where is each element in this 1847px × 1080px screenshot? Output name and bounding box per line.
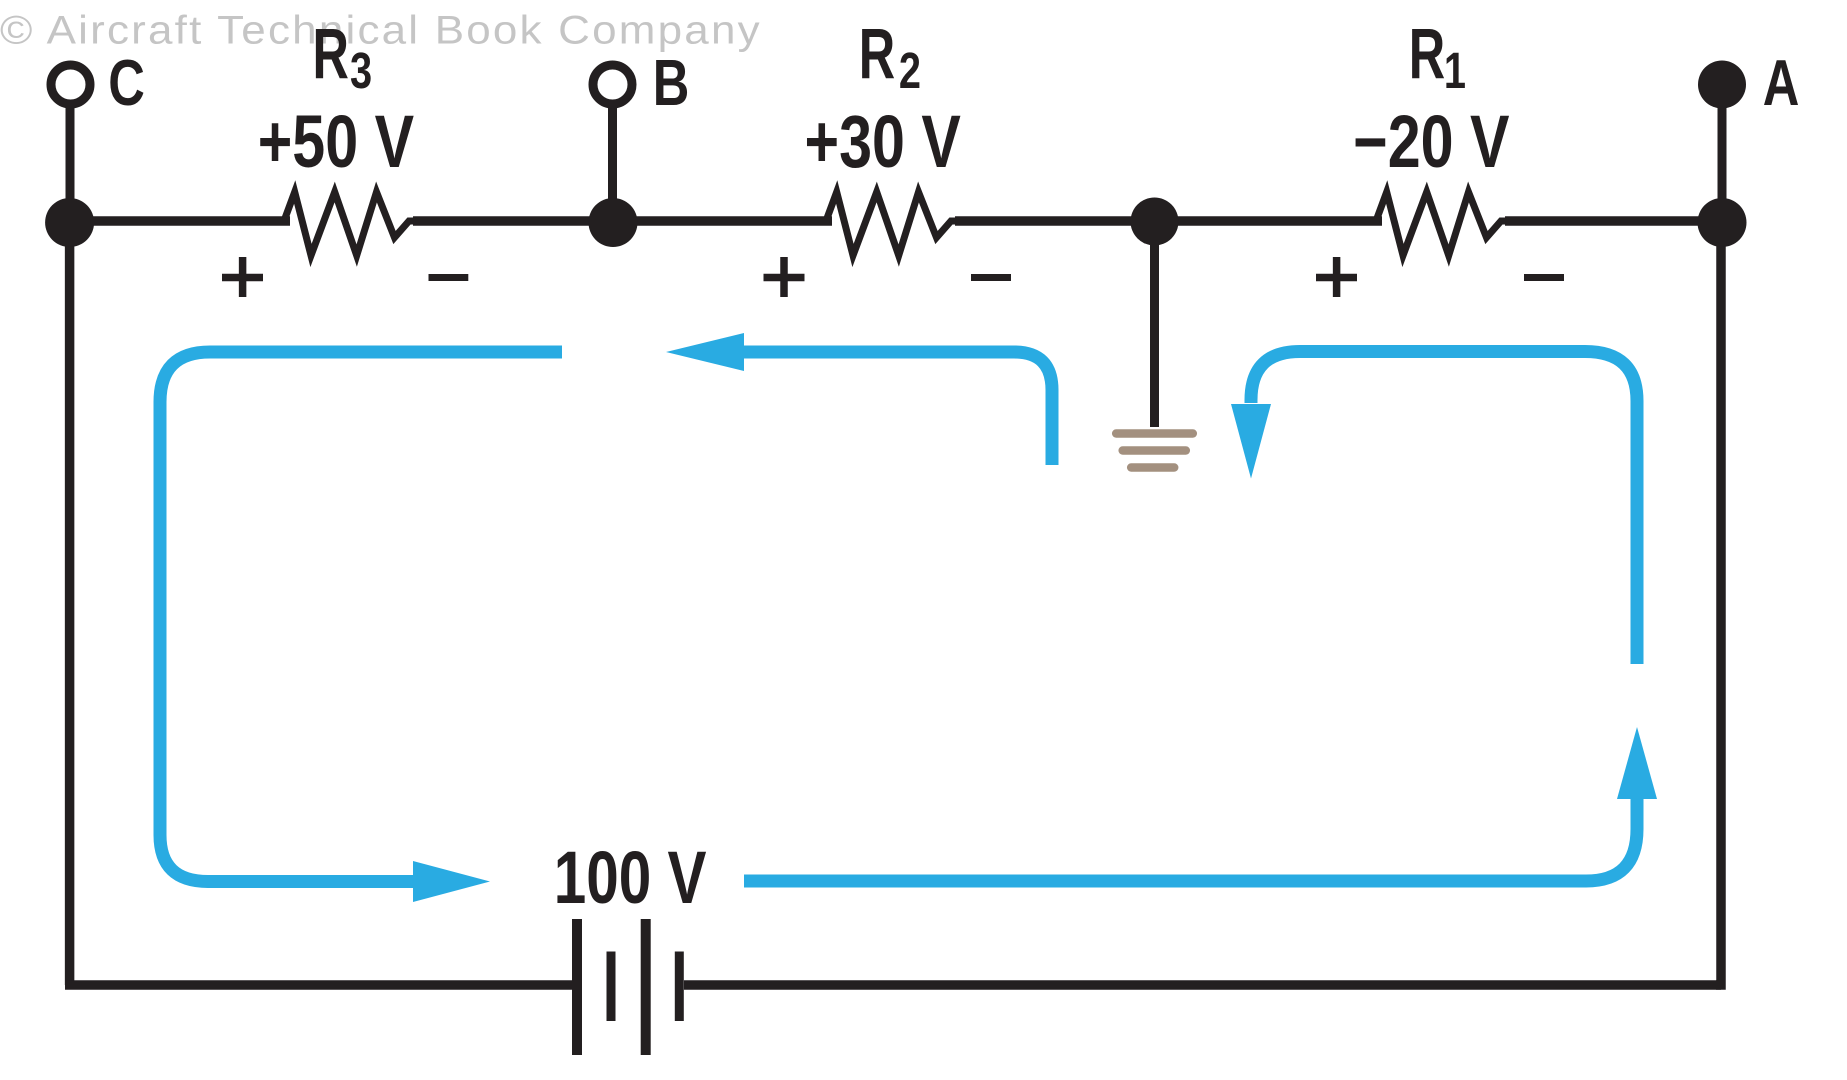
svg-text:−20 V: −20 V bbox=[1353, 101, 1510, 184]
svg-text:B: B bbox=[653, 47, 690, 119]
terminal A stem bbox=[1718, 84, 1727, 221]
wire right vertical bbox=[1716, 221, 1721, 990]
resistor R3 bbox=[274, 192, 419, 256]
svg-text:R: R bbox=[312, 15, 348, 95]
svg-text:2: 2 bbox=[899, 42, 921, 99]
terminal C stem bbox=[66, 100, 75, 221]
terminal C circle bbox=[51, 65, 90, 104]
svg-text:100 V: 100 V bbox=[554, 838, 707, 920]
svg-text:© Aircraft Technical Book Comp: © Aircraft Technical Book Company bbox=[0, 7, 762, 52]
wire R2 to R1 bbox=[955, 216, 1382, 226]
wire bottom right (battery to right) bbox=[684, 980, 1721, 990]
resistor R1 bbox=[1366, 192, 1511, 256]
arrow left (top loop) bbox=[666, 333, 744, 371]
R1 minus sign bbox=[1524, 274, 1564, 281]
svg-text:R: R bbox=[859, 15, 895, 95]
R2 plus sign bbox=[764, 257, 805, 297]
R2 minus sign bbox=[971, 274, 1011, 281]
svg-text:+50 V: +50 V bbox=[258, 101, 415, 184]
wire blue right loop bottom (up arrow tail) bbox=[744, 798, 1637, 881]
battery 100 V bbox=[577, 919, 679, 1055]
svg-text:R: R bbox=[1409, 15, 1445, 95]
R1 plus sign bbox=[1316, 257, 1357, 297]
R3 minus sign bbox=[429, 274, 469, 281]
current loop left: top-left segment with left vertical and bottom arrow bbox=[160, 352, 1637, 882]
junction dot ground bbox=[1131, 198, 1179, 246]
ground symbol bbox=[1116, 434, 1193, 468]
wire R3 to R2 bbox=[413, 216, 832, 226]
svg-text:A: A bbox=[1763, 47, 1800, 119]
wire left vertical bbox=[65, 221, 75, 985]
arrow down (right loop) bbox=[1231, 404, 1271, 479]
wire bottom left (to battery) bbox=[65, 980, 572, 990]
wire top-left segment (C junction to R3) bbox=[70, 216, 290, 226]
arrow up (right loop) bbox=[1617, 727, 1657, 799]
R3 plus sign bbox=[222, 257, 263, 297]
svg-text:C: C bbox=[108, 47, 145, 119]
svg-text:1: 1 bbox=[1444, 42, 1466, 99]
junction dot C bbox=[45, 198, 94, 247]
wire blue right loop top (down arrow tail) bbox=[1251, 352, 1637, 665]
terminal A circle bbox=[1698, 61, 1746, 109]
junction dot A bbox=[1698, 198, 1747, 247]
terminal B stem bbox=[608, 100, 617, 221]
wire blue left loop bbox=[160, 352, 562, 882]
svg-text:+30 V: +30 V bbox=[805, 101, 962, 184]
terminal B circle bbox=[593, 65, 632, 104]
wire blue left-arrow segment bbox=[744, 352, 1052, 465]
resistor R2 bbox=[816, 192, 961, 256]
ground stem wire bbox=[1150, 221, 1159, 427]
svg-text:3: 3 bbox=[350, 42, 372, 99]
arrow right (bottom left loop) bbox=[413, 861, 490, 902]
wire R1 to A junction bbox=[1505, 216, 1721, 226]
junction dot B bbox=[589, 198, 638, 247]
